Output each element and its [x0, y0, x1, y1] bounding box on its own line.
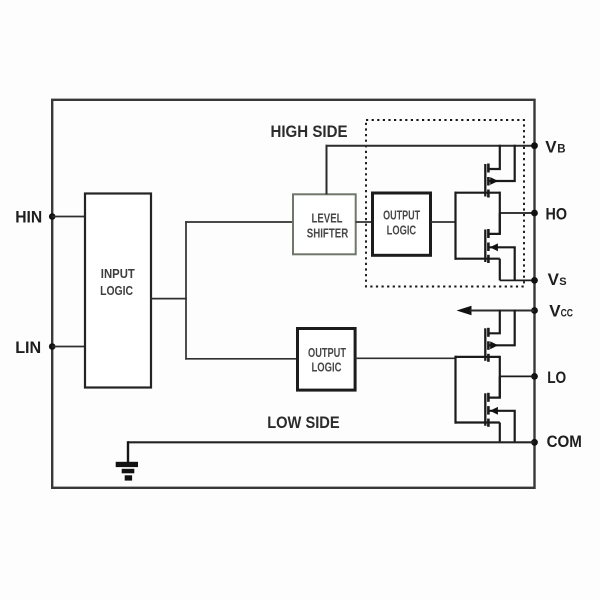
- svg-text:B: B: [557, 143, 565, 155]
- wire source to VS: [499, 259, 501, 281]
- block INPUT LOGIC: [85, 194, 151, 388]
- pin LO: [531, 373, 538, 380]
- wire M4 body to COM: [488, 411, 514, 443]
- transistor M4 channel: [487, 393, 490, 402]
- wire LO to pin: [500, 375, 535, 377]
- wire HO column: [499, 192, 501, 234]
- wire M2 drain to HO: [488, 213, 499, 234]
- arrow M3 body: [490, 341, 498, 349]
- svg-text:CC: CC: [561, 307, 573, 319]
- transistor M4 gate bar: [484, 393, 486, 426]
- svg-text:OUTPUT: OUTPUT: [383, 208, 420, 222]
- svg-text:LOGIC: LOGIC: [100, 284, 133, 298]
- ground bar 3: [125, 475, 132, 480]
- transistor M3 channel: [487, 328, 490, 337]
- wire VS rail: [500, 279, 535, 281]
- wire HIN to input logic: [52, 216, 85, 218]
- wire lower source line: [455, 421, 500, 423]
- wire M4 drain to LO: [488, 376, 499, 397]
- svg-text:HIGH SIDE: HIGH SIDE: [271, 123, 348, 141]
- arrow M4 body: [490, 407, 498, 415]
- svg-text:HIN: HIN: [15, 208, 42, 226]
- node HIN dot: [49, 213, 56, 220]
- wire LIN to input logic: [52, 346, 85, 348]
- svg-text:COM: COM: [547, 432, 582, 451]
- pin VS: [531, 277, 538, 284]
- ground bar 1: [116, 462, 138, 467]
- transistor M1 channel: [487, 164, 490, 173]
- node LIN dot: [49, 343, 56, 350]
- transistor M2 gate bar: [484, 230, 486, 263]
- wire VCC rail: [470, 310, 535, 312]
- wire M3 body to VCC: [488, 310, 514, 346]
- transistor M1 gate bar: [484, 164, 486, 197]
- wire output logic to low driver: [355, 357, 456, 359]
- svg-text:LEVEL: LEVEL: [312, 211, 343, 225]
- wire source to COM: [499, 423, 501, 443]
- block LEVEL SHIFTER: [293, 194, 356, 254]
- svg-text:V: V: [548, 270, 560, 289]
- IC boundary box: [52, 100, 534, 488]
- arrow VCC supply: [457, 306, 472, 316]
- svg-text:LOGIC: LOGIC: [387, 223, 417, 237]
- wire M1 body to VB: [488, 145, 514, 181]
- svg-text:LOGIC: LOGIC: [312, 360, 342, 374]
- transistor M2 channel: [487, 229, 490, 238]
- wire HO to pin: [500, 212, 535, 214]
- svg-text:LIN: LIN: [15, 339, 41, 357]
- block OUTPUT LOGIC high side: [373, 193, 431, 255]
- wire upper gate/source line: [455, 192, 500, 194]
- arrow M1 body: [490, 177, 498, 185]
- svg-text:HO: HO: [546, 204, 568, 223]
- transistor M3 gate bar: [484, 328, 486, 361]
- wire level shifter to output logic: [356, 221, 373, 223]
- driver gate bus vertical: [454, 192, 456, 260]
- wire lower source line: [455, 258, 500, 260]
- wire branch riser: [185, 221, 187, 359]
- wire level shifter to VB rail riser: [326, 145, 328, 195]
- svg-text:LOW SIDE: LOW SIDE: [267, 414, 340, 432]
- pin VB: [531, 142, 538, 149]
- svg-text:S: S: [559, 276, 566, 288]
- wire output logic to high driver: [431, 221, 457, 223]
- pin VCC: [531, 307, 538, 314]
- svg-text:V: V: [545, 137, 557, 156]
- wire to low-side output logic: [185, 358, 297, 360]
- wire M1 drain to VB: [488, 145, 499, 169]
- dashed high-side section box: [366, 120, 524, 287]
- svg-text:LO: LO: [547, 368, 566, 387]
- svg-text:SHIFTER: SHIFTER: [307, 227, 349, 241]
- pin HO: [531, 210, 538, 217]
- wire VB rail: [326, 145, 535, 147]
- arrow M2 body: [490, 243, 498, 251]
- svg-text:OUTPUT: OUTPUT: [308, 346, 346, 360]
- ground stub: [127, 441, 129, 462]
- svg-text:V: V: [549, 301, 561, 320]
- driver gate bus vertical: [454, 356, 456, 424]
- wire M2 body to VS: [488, 247, 514, 280]
- ground bar 2: [122, 469, 135, 474]
- wire upper gate/source line: [455, 356, 500, 358]
- wire COM rail: [128, 441, 535, 443]
- pin COM: [531, 439, 538, 446]
- wire LO column: [499, 356, 501, 398]
- wire to level shifter: [185, 221, 293, 223]
- wire input logic output: [151, 298, 187, 300]
- block OUTPUT LOGIC low side: [298, 329, 356, 391]
- low-side driver stage: [455, 310, 535, 443]
- high-side driver stage: [455, 145, 535, 281]
- svg-text:INPUT: INPUT: [101, 267, 135, 281]
- wire M3 drain to VCC: [488, 310, 499, 334]
